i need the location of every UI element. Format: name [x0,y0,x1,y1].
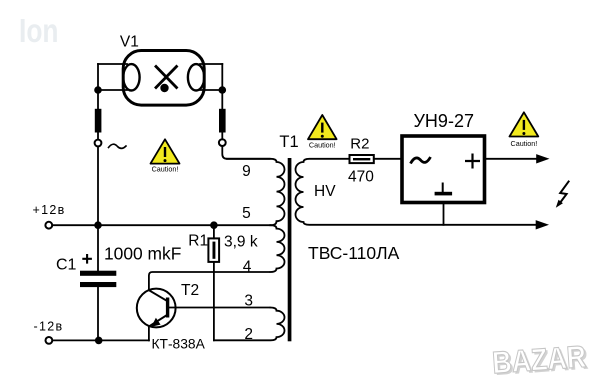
svg-text:V1: V1 [120,33,139,50]
wire -12 rail [52,339,148,341]
svg-text:ТВС-110ЛА: ТВС-110ЛА [308,243,400,263]
terminal AC right [219,139,226,146]
resistor R1 inner bar [213,242,216,259]
wire +12 rail [52,224,269,226]
wire R2 to UN9-27 [374,158,402,160]
transformer T1 secondary HV winding [296,159,537,225]
lamp V1 right electrode [188,64,204,90]
svg-text:470: 470 [348,169,374,186]
svg-text:УН9-27: УН9-27 [414,111,474,131]
svg-text:Caution!: Caution! [511,139,538,148]
transistor T2 collector stroke [149,290,166,300]
wire R1 branch top [213,225,215,238]
node left lamp junction [94,86,102,94]
svg-text:4: 4 [243,259,252,276]
svg-text:Caution!: Caution! [152,165,179,174]
wire bar to right terminal [221,133,223,140]
svg-text:3,9 k: 3,9 k [224,234,258,251]
wire pin 4 to collector [149,272,270,290]
svg-text:+12в: +12в [33,203,66,217]
svg-text:-12в: -12в [34,319,64,333]
multiplier plus output symbol [465,154,480,169]
right electrode bar [219,109,226,133]
svg-text:Т2: Т2 [181,282,199,299]
transformer T1 winding 3-2 [214,308,285,341]
svg-text:2: 2 [244,326,253,343]
capacitor C1 plate top [80,271,116,276]
svg-text:КТ-838А: КТ-838А [152,336,206,351]
AC tilde symbol [109,144,127,148]
resistor R2 body [350,155,374,163]
label C1 polarity + [82,254,92,264]
wire right bus upper [221,64,223,109]
wire C1 bottom [97,287,99,340]
wire right terminal to T1 pin 9 [222,146,269,159]
wire lamp left bottom lead [98,89,127,91]
resistor R1 body [208,238,219,262]
svg-text:9: 9 [242,163,251,180]
wire left bus to +12 rail [97,147,99,226]
svg-text:C1: C1 [56,256,77,273]
capacitor C1 plate bottom [80,282,116,287]
svg-text:Ion: Ion [19,12,59,49]
transistor T2 emitter arrow [151,318,160,327]
transistor T2 emitter stroke [149,316,166,327]
wire pin 3 to base [169,307,269,309]
lightning bolt [560,181,570,204]
svg-text:3: 3 [244,293,253,310]
wire ground pin to HV return [443,203,445,225]
watermark BAZAR [491,339,589,383]
wire R1 to pin 2 [213,262,215,340]
wire lamp left top lead [98,63,127,65]
lamp V1 left electrode [123,64,139,90]
terminal AC left [95,140,102,147]
svg-text:R1: R1 [188,233,208,250]
wire emitter to -12 rail [148,326,150,340]
svg-text:1000 mkF: 1000 mkF [104,244,181,264]
resistor R2 inner bar [353,158,370,160]
svg-text:HV: HV [314,183,336,200]
transistor T2 body [137,289,176,328]
terminal +12 [45,222,52,229]
svg-text:BAZAR: BAZAR [491,339,587,380]
wire C1 top [97,225,99,271]
transformer T1 winding 5-4 [271,225,285,272]
arrow HV+ output [536,154,549,163]
wire left bus upper [97,64,99,109]
arrow HV return output [536,220,549,229]
terminal -12 [46,337,53,344]
svg-text:5: 5 [242,205,251,222]
node right lamp junction [219,86,227,94]
caution triangle 2 [308,115,337,150]
wire lamp right top lead [200,63,222,65]
transistor T2 base bar [166,298,169,318]
lamp V1 X mark [156,67,177,88]
multiplier ground pin symbol [442,184,444,192]
node +12/C1 junction [94,221,102,229]
lamp V1 envelope [123,51,204,106]
multiplier AC input symbol [411,157,431,164]
multiplier UN9-27 box [402,136,485,203]
svg-text:Caution!: Caution! [309,141,336,150]
node -12/C1 junction [95,337,103,345]
caution triangle 1 [151,139,180,173]
left electrode bar [95,109,102,133]
node +12/R1 junction [210,221,218,229]
wire bar to terminal [97,133,99,140]
lamp V1 dot mark [160,84,168,92]
svg-text:R2: R2 [350,136,369,153]
wire lamp right bottom lead [200,89,222,91]
caution triangle 3 [510,112,539,148]
transformer T1 winding 9-5 [227,159,285,225]
transformer T1 core [288,158,292,341]
svg-text:T1: T1 [279,133,298,151]
wire + output [485,158,537,160]
